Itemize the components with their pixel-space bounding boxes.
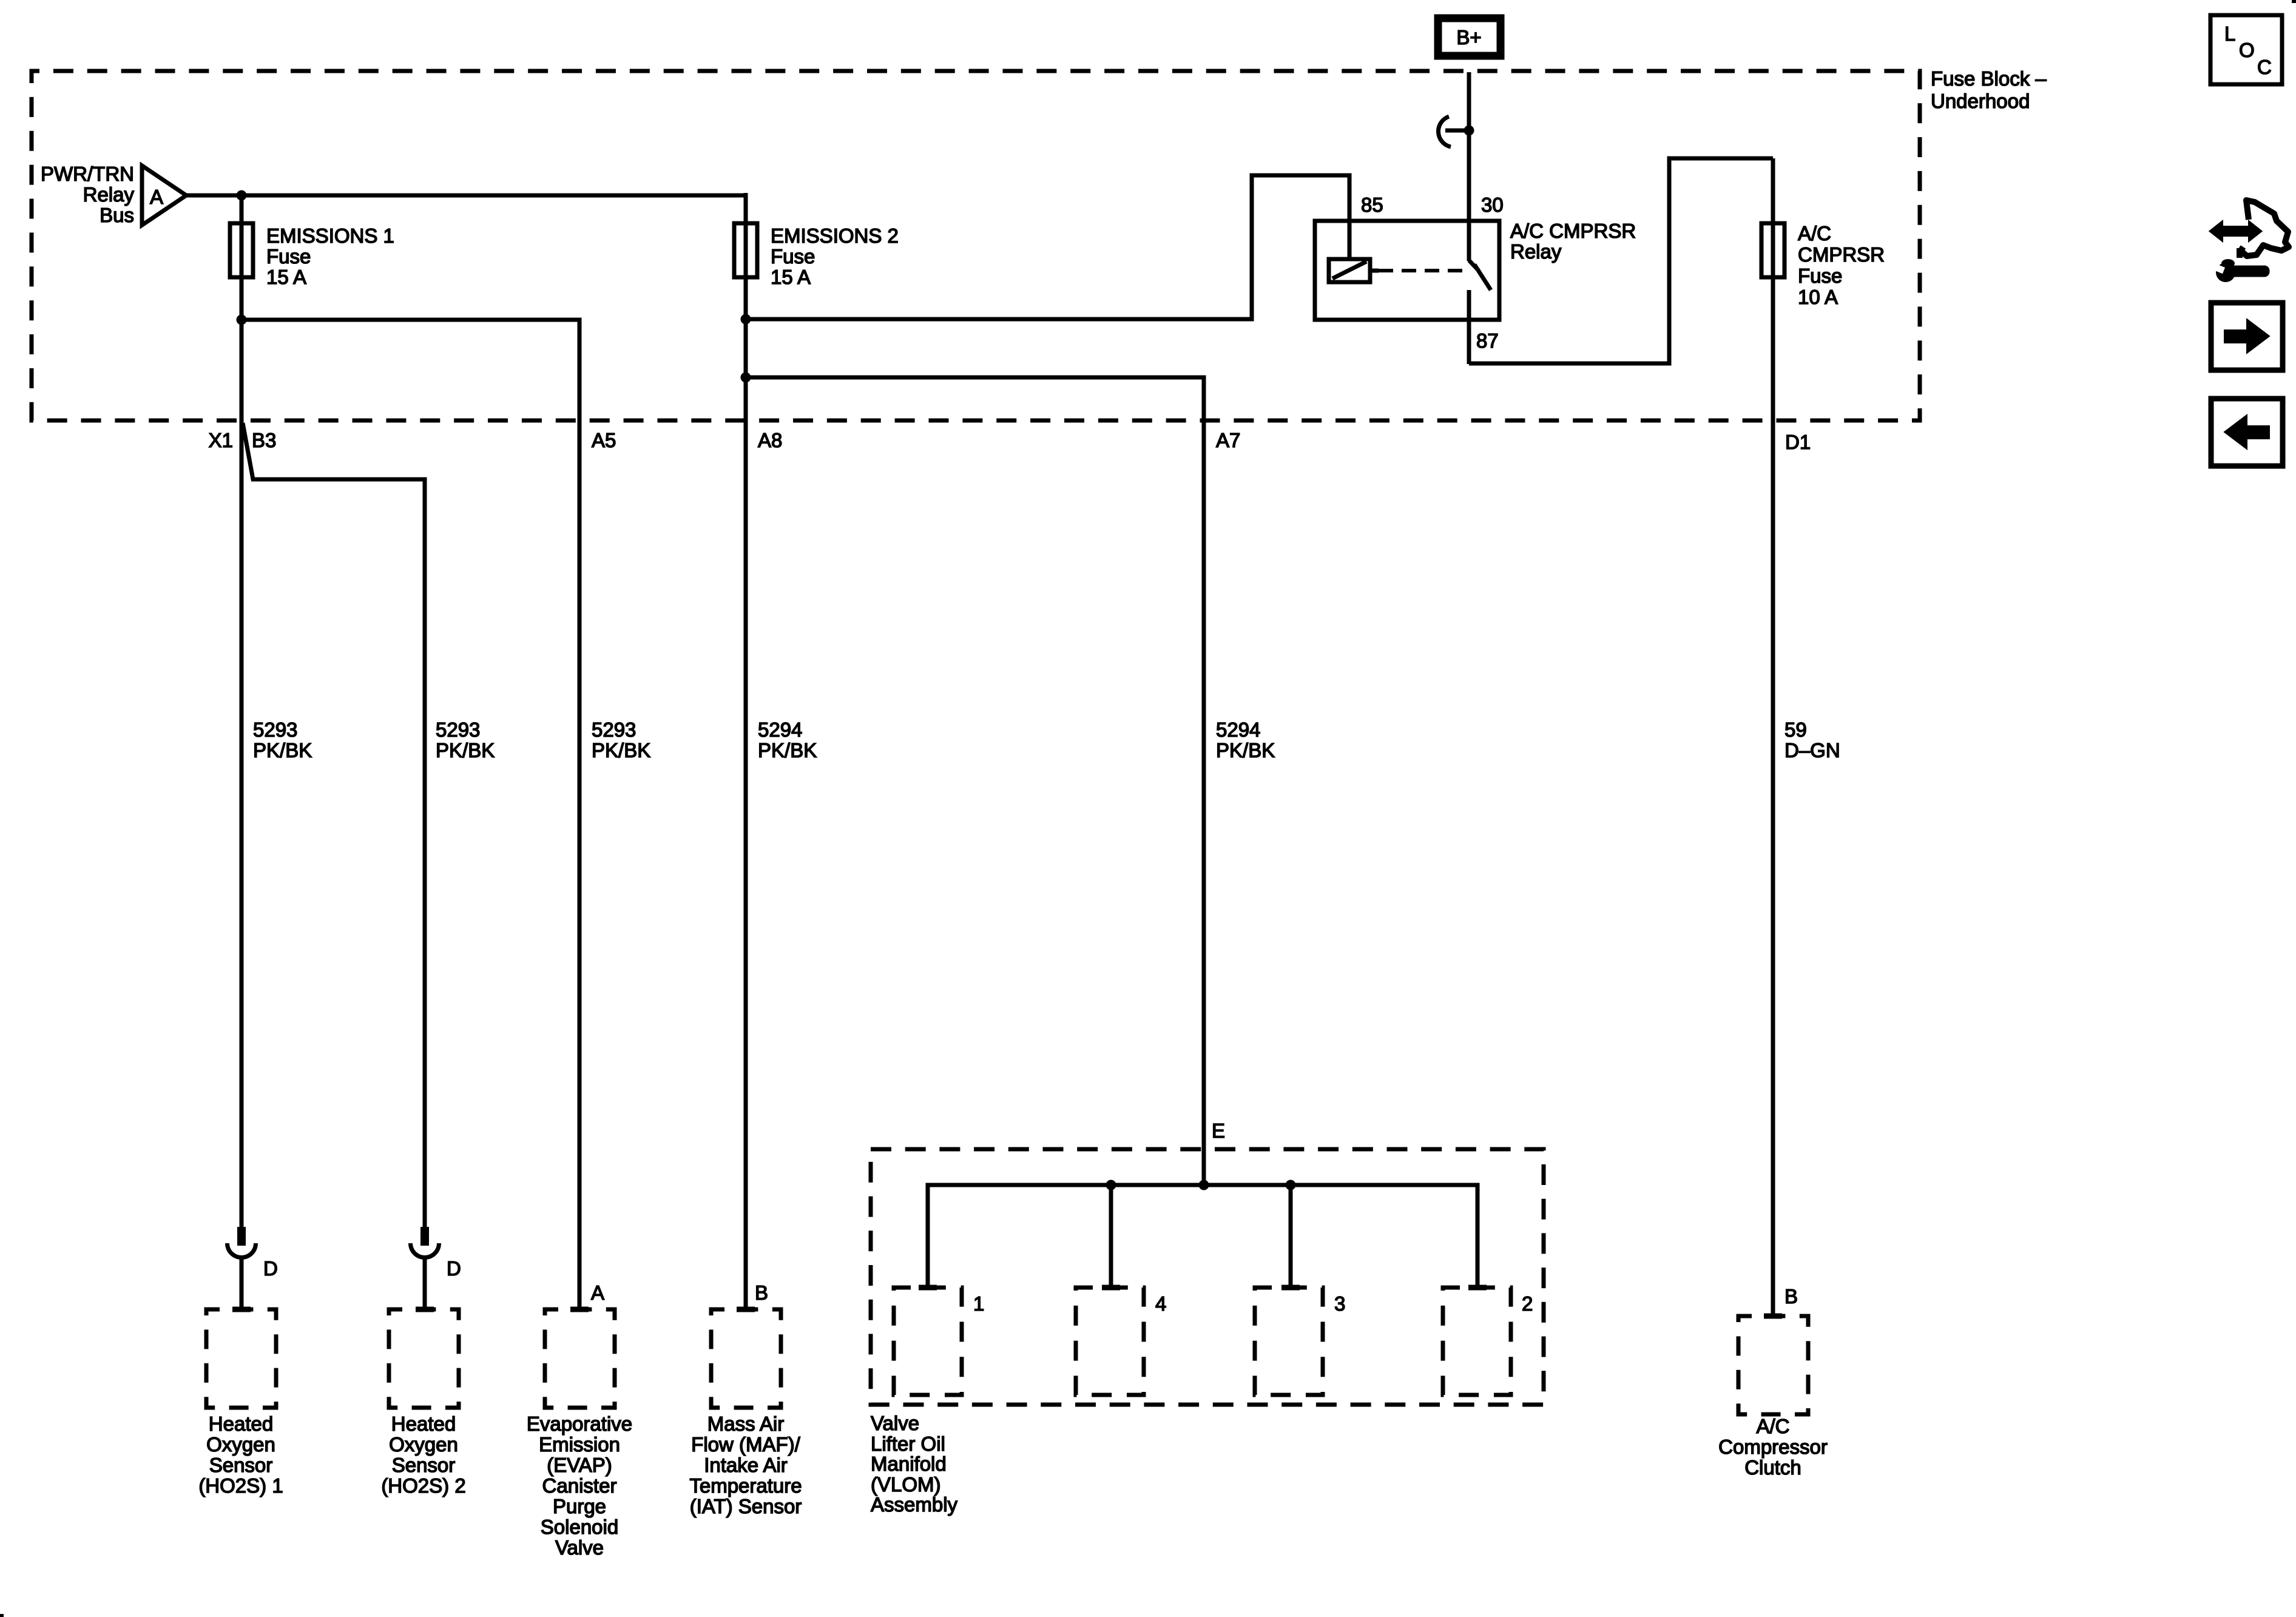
svg-text:PK/BK: PK/BK	[758, 739, 817, 761]
svg-text:5294: 5294	[1216, 718, 1260, 741]
svg-text:3: 3	[1334, 1292, 1345, 1315]
VLOM solenoid 2 dashed box	[1443, 1288, 1511, 1395]
svg-text:Heated: Heated	[209, 1413, 273, 1435]
relay coil-to-switch dashed link	[1379, 269, 1468, 272]
svg-text:5293: 5293	[436, 718, 480, 741]
svg-text:A/C: A/C	[1756, 1415, 1789, 1437]
svg-text:Canister: Canister	[542, 1474, 617, 1497]
junction dot E2/relay85 branch	[741, 314, 751, 325]
pin tick VLOM 2	[1468, 1285, 1487, 1291]
svg-text:Emission: Emission	[539, 1433, 620, 1456]
svg-text:EMISSIONS 1: EMISSIONS 1	[266, 224, 394, 247]
icon diagnostic double arrow	[2210, 222, 2261, 240]
VLOM bus wire	[928, 1185, 1477, 1288]
svg-text:D: D	[263, 1257, 278, 1280]
svg-text:B+: B+	[1456, 26, 1481, 49]
pin tick EVAP	[570, 1307, 589, 1312]
pin 4 label	[1155, 1292, 1166, 1315]
pin label A7	[1216, 429, 1240, 451]
svg-text:5293: 5293	[592, 718, 636, 741]
svg-text:30: 30	[1481, 194, 1504, 216]
svg-text:15 A: 15 A	[771, 266, 811, 288]
svg-text:Relay: Relay	[83, 183, 135, 206]
svg-text:Compressor: Compressor	[1718, 1436, 1828, 1458]
svg-text:A7: A7	[1216, 429, 1240, 451]
junction dots VLOM bus	[1106, 1180, 1116, 1190]
B+ terminal	[1438, 18, 1501, 56]
svg-text:A: A	[591, 1281, 604, 1304]
svg-text:10 A: 10 A	[1798, 286, 1838, 308]
svg-text:Mass Air: Mass Air	[707, 1413, 785, 1435]
svg-text:Intake Air: Intake Air	[704, 1454, 788, 1476]
connector A/C clutch dashed box	[1738, 1316, 1808, 1414]
svg-text:5293: 5293	[253, 718, 297, 741]
svg-text:PK/BK: PK/BK	[592, 739, 650, 761]
junction dot E2/A7 branch	[741, 373, 751, 383]
pin tick VLOM 3	[1281, 1285, 1300, 1291]
svg-text:Fuse Block –: Fuse Block –	[1931, 67, 2047, 90]
svg-text:Bus: Bus	[100, 204, 134, 226]
svg-text:D: D	[447, 1257, 461, 1280]
svg-text:4: 4	[1155, 1292, 1166, 1315]
svg-text:C: C	[2257, 56, 2272, 78]
svg-text:Sensor: Sensor	[209, 1454, 273, 1476]
svg-text:B: B	[755, 1281, 768, 1304]
node A triangle	[142, 166, 186, 225]
wire label 5293 PK/BK (EVAP)	[592, 718, 650, 761]
svg-text:L: L	[2224, 22, 2235, 45]
VLOM solenoid 1 dashed box	[894, 1288, 962, 1395]
label VLOM	[871, 1412, 958, 1516]
relay switch blade	[1469, 260, 1479, 271]
wire bus	[186, 194, 746, 198]
svg-text:A8: A8	[758, 429, 782, 451]
icon forward arrow box	[2211, 303, 2283, 370]
node E label	[1212, 1119, 1225, 1142]
svg-text:Lifter Oil: Lifter Oil	[871, 1433, 945, 1455]
label A/C compressor clutch	[1718, 1415, 1828, 1479]
svg-text:Heated: Heated	[391, 1413, 456, 1435]
svg-text:PK/BK: PK/BK	[1216, 739, 1275, 761]
battery feed hook symbol	[1438, 116, 1451, 147]
pin B label A/C clutch	[1784, 1285, 1798, 1308]
svg-text:Underhood: Underhood	[1931, 90, 2030, 112]
svg-text:Relay: Relay	[1510, 240, 1562, 263]
svg-text:PK/BK: PK/BK	[253, 739, 312, 761]
svg-text:CMPRSR: CMPRSR	[1798, 243, 1885, 266]
svg-text:A/C: A/C	[1798, 222, 1831, 245]
label HO2S1	[198, 1413, 283, 1497]
wire to VLOM (A7)	[746, 377, 1204, 1185]
svg-text:(HO2S) 2: (HO2S) 2	[381, 1474, 465, 1497]
svg-text:Valve: Valve	[871, 1412, 919, 1434]
pin tick HO2S1	[232, 1307, 251, 1312]
VLOM assembly dashed box	[871, 1149, 1544, 1405]
page artifact dot top-right	[2292, 0, 2296, 3]
connector HO2S2 dashed box	[389, 1309, 459, 1408]
junction dot bus/E1	[237, 191, 247, 201]
page artifact dot bottom-left	[0, 1614, 4, 1617]
svg-text:Valve: Valve	[555, 1536, 604, 1559]
label EVAP	[527, 1413, 632, 1559]
pin 1 label	[973, 1292, 984, 1315]
svg-text:A5: A5	[592, 429, 616, 451]
pin label A5	[592, 429, 616, 451]
wire pin 87 to A/C fuse	[1469, 158, 1773, 363]
wire B+ to relay pin 30	[1467, 72, 1471, 261]
VLOM drop 4	[1109, 1185, 1113, 1288]
pin 87 label	[1476, 329, 1499, 352]
pin label D1	[1785, 431, 1811, 453]
wire label 59 D-GN	[1784, 718, 1840, 761]
pin label B3	[252, 429, 276, 451]
pin B label MAF	[755, 1281, 768, 1304]
wire label 5293 PK/BK (HO2S2)	[436, 718, 495, 761]
pin A label EVAP	[591, 1281, 604, 1304]
svg-text:2: 2	[1522, 1292, 1533, 1315]
svg-text:Solenoid: Solenoid	[541, 1516, 618, 1538]
pin D label HO2S2	[447, 1257, 461, 1280]
svg-text:E: E	[1212, 1119, 1225, 1142]
svg-text:B3: B3	[252, 429, 276, 451]
svg-text:Oxygen: Oxygen	[206, 1433, 275, 1456]
svg-text:X1: X1	[209, 429, 233, 451]
svg-text:15 A: 15 A	[266, 266, 306, 288]
pin tick VLOM 4	[1102, 1285, 1120, 1291]
svg-text:PK/BK: PK/BK	[436, 739, 495, 761]
svg-text:EMISSIONS 2: EMISSIONS 2	[771, 224, 899, 247]
wire fuse E1 down to HO2S1	[240, 195, 244, 1229]
svg-text:1: 1	[973, 1292, 984, 1315]
pin 3 label	[1334, 1292, 1345, 1315]
svg-text:Sensor: Sensor	[392, 1454, 456, 1476]
fuse EMISSIONS 1	[230, 223, 253, 277]
wire branch B3 to HO2S2	[243, 423, 425, 1229]
svg-text:Fuse: Fuse	[266, 245, 311, 268]
relay A/C CMPRSR box	[1315, 221, 1499, 320]
svg-text:A/C CMPRSR: A/C CMPRSR	[1510, 220, 1636, 242]
label MAF	[689, 1413, 802, 1517]
pin label X1	[209, 429, 233, 451]
pin tick VLOM 1	[919, 1285, 937, 1291]
fuse block underhood dashed box	[32, 71, 1920, 420]
svg-text:(IAT) Sensor: (IAT) Sensor	[690, 1495, 802, 1517]
svg-text:Fuse: Fuse	[771, 245, 815, 268]
svg-text:D–GN: D–GN	[1784, 739, 1840, 761]
svg-text:5294: 5294	[758, 718, 802, 741]
label HO2S2	[381, 1413, 465, 1497]
wire fuse E2 down to MAF	[744, 193, 748, 1309]
icon wrench	[2227, 267, 2268, 275]
svg-text:Purge: Purge	[553, 1495, 606, 1517]
label Fuse Block Underhood	[1931, 67, 2047, 112]
svg-text:Oxygen: Oxygen	[389, 1433, 458, 1456]
connector HO2S1 dashed box	[206, 1309, 276, 1408]
pin 85 label	[1361, 194, 1383, 216]
svg-text:59: 59	[1784, 718, 1807, 741]
svg-text:A: A	[150, 186, 163, 208]
pin tick MAF	[737, 1307, 755, 1312]
relay coil	[1329, 259, 1370, 282]
svg-text:(HO2S) 1: (HO2S) 1	[198, 1474, 283, 1497]
junction dot at B+ feed	[1464, 126, 1474, 136]
pin D label HO2S1	[263, 1257, 278, 1280]
icon back arrow box	[2211, 399, 2283, 466]
wire to relay pin 85	[746, 175, 1349, 319]
inline connector at HO2S2	[420, 1227, 429, 1246]
wire label 5294 PK/BK (MAF)	[758, 718, 817, 761]
svg-text:Evaporative: Evaporative	[527, 1413, 632, 1435]
pin tick HO2S2	[416, 1307, 434, 1312]
fuse A/C CMPRSR	[1761, 223, 1784, 277]
wire A/C fuse to clutch	[1771, 158, 1775, 1316]
svg-text:Temperature: Temperature	[689, 1474, 802, 1497]
connector EVAP dashed box	[545, 1309, 615, 1408]
svg-text:(EVAP): (EVAP)	[547, 1454, 612, 1476]
icon LOC box	[2210, 15, 2282, 84]
wire label 5294 PK/BK (VLOM)	[1216, 718, 1275, 761]
svg-text:O: O	[2239, 39, 2255, 61]
svg-text:Manifold: Manifold	[871, 1453, 947, 1475]
VLOM solenoid 4 dashed box	[1076, 1288, 1144, 1395]
VLOM solenoid 3 dashed box	[1255, 1288, 1323, 1395]
svg-text:Clutch: Clutch	[1744, 1456, 1801, 1479]
PWR/TRN Relay Bus label	[41, 163, 134, 226]
pin label A8	[758, 429, 782, 451]
junction dot E1/EVAP branch	[237, 315, 247, 325]
connector MAF dashed box	[711, 1309, 781, 1408]
svg-text:D1: D1	[1785, 431, 1811, 453]
svg-text:Flow (MAF)/: Flow (MAF)/	[691, 1433, 800, 1456]
inline connector at HO2S1	[237, 1227, 246, 1246]
wire branch to EVAP	[241, 320, 579, 1309]
VLOM drop 3	[1289, 1185, 1293, 1288]
pin 2 label	[1522, 1292, 1533, 1315]
svg-text:87: 87	[1476, 329, 1499, 352]
wire label 5293 PK/BK (HO2S1)	[253, 718, 312, 761]
icon diagnostic outline	[2241, 200, 2289, 256]
pin tick A/C clutch	[1764, 1314, 1782, 1319]
svg-text:85: 85	[1361, 194, 1383, 216]
svg-text:PWR/TRN: PWR/TRN	[41, 163, 134, 185]
svg-text:Assembly: Assembly	[871, 1493, 958, 1516]
svg-text:B: B	[1784, 1285, 1798, 1308]
svg-text:(VLOM): (VLOM)	[871, 1473, 941, 1496]
pin 30 label	[1481, 194, 1504, 216]
fuse EMISSIONS 2	[734, 223, 757, 277]
svg-text:Fuse: Fuse	[1798, 265, 1842, 287]
